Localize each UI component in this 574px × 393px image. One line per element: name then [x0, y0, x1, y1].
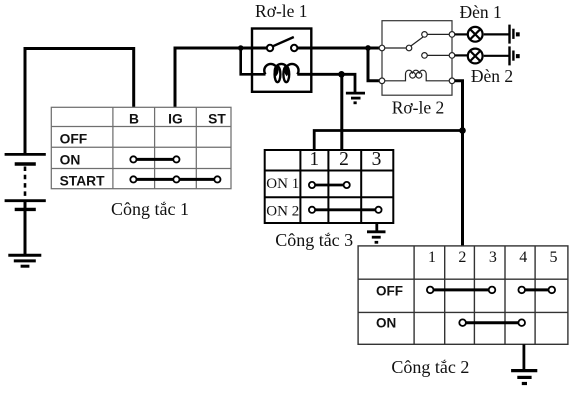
relay U1 switch contact left: [267, 45, 273, 51]
switch S2 ON contact bar 2-4: [463, 321, 522, 324]
switch S3 table Cong tac 3: [265, 150, 394, 223]
ground battery: [8, 254, 41, 257]
svg-text:4: 4: [519, 249, 527, 266]
svg-text:5: 5: [550, 249, 558, 266]
wire battery to ground: [24, 201, 27, 255]
wire lamp2 to battery2: [484, 55, 509, 57]
switch S1 table Cong tac 1: [51, 107, 231, 188]
wire switch1 IG column to relay1 input: [175, 48, 267, 107]
relay U1 switch contact right: [291, 45, 297, 51]
switch S3 ON1 contact bar: [312, 184, 347, 187]
ground relay1 coil: [346, 92, 365, 95]
switch S2 OFF contact bar 1-3: [430, 288, 492, 291]
battery terminal 1: [508, 25, 510, 44]
svg-text:3: 3: [372, 149, 382, 170]
relay U2 terminal right mid: [449, 53, 455, 59]
svg-text:IG: IG: [168, 112, 183, 127]
wire relay1 coil junction down to switch3 pin2: [340, 74, 343, 150]
relay U2 pivot contact: [406, 45, 412, 51]
relay U2 upper fixed contact: [422, 32, 428, 38]
svg-text:1: 1: [428, 249, 436, 266]
relay U2 terminal right bottom: [449, 78, 455, 84]
svg-text:Đèn 2: Đèn 2: [471, 66, 513, 86]
relay U1 box: [252, 29, 311, 92]
battery terminal 2: [508, 46, 510, 65]
wire relay2 coil feed: [368, 48, 379, 81]
wire battery to switch1 B column: [25, 49, 134, 155]
switch S1 ON contact bar: [133, 158, 176, 161]
ground switch3: [375, 223, 378, 232]
svg-text:ON: ON: [60, 153, 81, 168]
relay U2 box: [382, 21, 452, 96]
ground switch2: [523, 344, 526, 370]
node junction on relay2 output wire: [459, 127, 466, 134]
relay U1 coil: [264, 64, 298, 74]
svg-text:2: 2: [458, 249, 466, 266]
wire relay1 coil output to ground: [297, 74, 355, 92]
node junction at relay1 input: [238, 45, 244, 51]
relay U2 terminal right top: [449, 32, 455, 38]
svg-text:ON: ON: [376, 316, 396, 331]
svg-text:OFF: OFF: [60, 131, 88, 146]
wire relay2 to lamp1: [455, 33, 468, 35]
switch S2 table Cong tac 2: [358, 246, 568, 344]
svg-text:START: START: [60, 173, 106, 188]
svg-text:3: 3: [489, 249, 497, 266]
wire junction to switch3 pin1: [314, 131, 462, 151]
svg-text:ON 2: ON 2: [266, 204, 299, 220]
relay U1 switch lever: [273, 37, 294, 46]
node junction on relay1 coil output: [338, 71, 345, 78]
relay U2 lower fixed contact: [422, 53, 428, 59]
lamp Den 2: [468, 49, 483, 64]
svg-text:Rơ-le 2: Rơ-le 2: [392, 98, 445, 118]
svg-text:ST: ST: [208, 112, 226, 127]
svg-text:B: B: [129, 112, 139, 127]
svg-text:OFF: OFF: [376, 283, 403, 298]
svg-text:2: 2: [339, 149, 349, 170]
svg-text:Công tắc 1: Công tắc 1: [111, 199, 189, 219]
relay U2 common line: [385, 47, 406, 49]
node junction feeding relay2 coil: [365, 45, 371, 51]
svg-text:Công tắc 2: Công tắc 2: [391, 357, 469, 377]
svg-text:ON 1: ON 1: [266, 176, 299, 192]
wire relay2 coil output down to switch2: [455, 81, 463, 246]
wire relay1 switch output to relay2: [297, 47, 379, 50]
switch S2 OFF contact bar 4-5: [522, 288, 552, 291]
svg-text:Đèn 1: Đèn 1: [459, 2, 501, 22]
relay U2 lever: [411, 37, 423, 46]
switch S3 ON2 contact bar: [312, 208, 379, 211]
battery left cell plates: [5, 153, 46, 156]
svg-text:1: 1: [309, 149, 319, 170]
relay U2 terminal left top: [379, 45, 385, 51]
svg-text:Công tắc 3: Công tắc 3: [275, 230, 353, 250]
lamp Den 1: [468, 27, 483, 42]
wire relay2 to lamp2: [455, 54, 468, 56]
switch S1 START contact bar: [133, 178, 217, 181]
relay U2 coil: [385, 70, 449, 81]
relay U2 terminal left bottom: [379, 78, 385, 84]
wire relay1 coil bypass: [241, 48, 266, 74]
svg-text:Rơ-le 1: Rơ-le 1: [255, 1, 308, 21]
wire lamp1 to battery1: [484, 33, 509, 35]
